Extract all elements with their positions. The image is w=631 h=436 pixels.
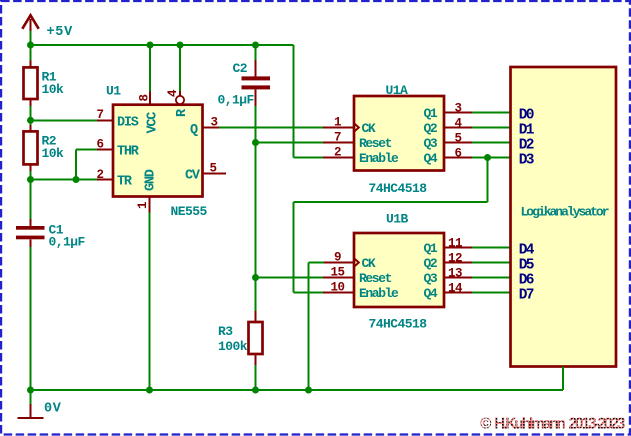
pin 13 Q3 B: [424, 266, 473, 286]
svg-text:Q4: Q4: [424, 286, 438, 301]
svg-text:2: 2: [96, 168, 103, 182]
svg-text:Logikanalysator: Logikanalysator: [521, 205, 609, 220]
pin 4 Q2 A: [424, 116, 473, 136]
wire TR row: [31, 171, 98, 180]
pin 3 Q: [190, 115, 219, 138]
wire Q3B to analyzer: [472, 277, 511, 279]
wire Q4A to Enable B: [294, 158, 488, 293]
wire top +5V rail: [31, 31, 325, 158]
svg-text:0V: 0V: [44, 402, 62, 417]
svg-text:Q2: Q2: [424, 121, 438, 136]
power +5V symbol: [22, 15, 38, 31]
svg-text:13: 13: [448, 266, 462, 280]
svg-text:Q4: Q4: [424, 151, 438, 166]
svg-text:U1A: U1A: [386, 83, 409, 98]
pin 10 Enable B: [323, 280, 399, 301]
svg-text:Reset: Reset: [359, 271, 392, 286]
wire CK B to bottom rail: [309, 263, 325, 391]
svg-text:D5: D5: [519, 258, 534, 274]
pin 5 CV: [185, 162, 226, 184]
pin 7 DIS: [96, 108, 138, 130]
junction Q4A / D3: [484, 154, 491, 161]
junction THR-TR link: [73, 176, 80, 183]
pin 8 VCC: [138, 45, 161, 134]
pin 11 Q1 B: [424, 236, 473, 256]
wire to Reset B: [256, 277, 325, 279]
svg-text:GND: GND: [144, 169, 159, 191]
svg-text:100k: 100k: [218, 339, 248, 354]
svg-text:Enable: Enable: [359, 151, 399, 166]
svg-text:U1: U1: [106, 84, 121, 99]
svg-text:6: 6: [96, 138, 103, 152]
svg-text:CK: CK: [362, 256, 376, 271]
junction top rail x=150: [147, 42, 154, 49]
wire Q to CK A: [219, 127, 324, 129]
junction reset B: [252, 274, 259, 281]
pin 6 Q4 A: [424, 146, 473, 166]
svg-text:Q1: Q1: [424, 106, 438, 121]
svg-text:5: 5: [209, 162, 216, 176]
svg-text:D0: D0: [519, 108, 534, 124]
svg-text:74HC4518: 74HC4518: [369, 181, 428, 196]
junction top rail x=255.5: [252, 42, 259, 49]
logic analyzer sheet: [511, 67, 617, 367]
svg-text:Q3: Q3: [424, 271, 438, 286]
svg-text:0,1µF: 0,1µF: [49, 234, 86, 249]
wire bottom 0V rail: [31, 389, 564, 391]
svg-text:14: 14: [448, 281, 463, 295]
svg-text:0,1µF: 0,1µF: [218, 93, 255, 108]
wire Q2B to analyzer: [472, 262, 511, 264]
resistor R2: [24, 125, 65, 171]
wire Q1A to analyzer: [472, 112, 511, 114]
capacitor C1: [16, 219, 86, 249]
svg-text:C2: C2: [233, 61, 248, 76]
svg-text:D4: D4: [519, 243, 535, 259]
svg-text:5: 5: [454, 131, 461, 145]
svg-text:1: 1: [136, 202, 150, 209]
wire THR link: [76, 150, 97, 180]
wire C1 to bottom rail: [30, 247, 32, 390]
wire analyzer to 0V rail: [562, 367, 564, 391]
junction top rail x=30.5: [27, 42, 34, 49]
svg-text:10k: 10k: [42, 82, 65, 97]
svg-text:1: 1: [334, 115, 341, 129]
pin 6 THR: [96, 138, 139, 160]
junction reset A: [252, 139, 259, 146]
wire Q1B to analyzer: [472, 247, 511, 249]
svg-text:Reset: Reset: [359, 136, 392, 151]
svg-text:3: 3: [210, 115, 217, 129]
svg-text:R3: R3: [218, 324, 233, 339]
junction TR left: [27, 176, 34, 183]
svg-text:CK: CK: [362, 121, 376, 136]
junction top rail x=180: [177, 42, 184, 49]
svg-text:+5V: +5V: [47, 25, 74, 40]
svg-text:11: 11: [448, 236, 462, 250]
timer U1 box: [113, 105, 203, 197]
wire C2 to reset nodes and R3: [255, 106, 257, 311]
junction bottom rail left: [27, 387, 34, 394]
svg-text:TR: TR: [117, 175, 133, 190]
clock triangle U1A: [354, 123, 359, 132]
svg-text:7: 7: [96, 108, 103, 122]
pin 14 Q4 B: [424, 281, 473, 301]
clock triangle U1B: [354, 258, 359, 267]
svg-text:Q2: Q2: [424, 256, 438, 271]
svg-text:D7: D7: [519, 288, 534, 304]
pin 1 CK A: [323, 115, 376, 136]
svg-text:Q1: Q1: [424, 241, 438, 256]
svg-text:15: 15: [330, 265, 344, 279]
svg-text:NE555: NE555: [171, 204, 208, 219]
wire GND to bottom rail: [149, 213, 151, 391]
svg-text:2: 2: [334, 145, 341, 159]
svg-text:6: 6: [454, 146, 461, 160]
svg-text:7: 7: [334, 130, 341, 144]
pin 7 Reset A: [323, 130, 392, 151]
svg-text:© H.Kuhlmann 2013-2023: © H.Kuhlmann 2013-2023: [480, 416, 626, 433]
pin 12 Q2 B: [424, 251, 473, 271]
pin 9 CK B: [323, 250, 376, 271]
svg-text:VCC: VCC: [146, 112, 161, 134]
wire R3 to bottom rail: [255, 365, 257, 390]
svg-text:10: 10: [330, 280, 344, 294]
svg-text:CV: CV: [185, 169, 201, 184]
wire Q2A to analyzer: [472, 127, 511, 129]
svg-text:4: 4: [454, 116, 462, 130]
svg-text:D2: D2: [519, 138, 534, 154]
svg-text:3: 3: [454, 101, 461, 115]
wire Q4B to analyzer: [472, 292, 511, 294]
wire Q4A to analyzer: [472, 157, 511, 159]
pin 4 R with bubble: [166, 45, 190, 117]
pin 1 GND: [136, 169, 159, 212]
wire Q3A to analyzer: [472, 142, 511, 144]
junction bottom rail gnd column: [146, 387, 153, 394]
wire DIS row: [31, 119, 98, 121]
pin 2 Enable A: [323, 145, 399, 166]
capacitor C2: [218, 45, 271, 108]
svg-text:Enable: Enable: [359, 286, 399, 301]
svg-text:THR: THR: [117, 145, 140, 160]
resistor R1: [24, 61, 65, 107]
svg-text:9: 9: [334, 250, 341, 264]
svg-text:12: 12: [448, 251, 462, 265]
counter U1A box: [354, 96, 444, 171]
counter U1B box: [354, 233, 444, 307]
svg-text:D6: D6: [519, 273, 534, 289]
wire to Reset A: [256, 142, 325, 144]
svg-text:Q3: Q3: [424, 136, 438, 151]
junction DIS node: [27, 117, 34, 124]
svg-text:D3: D3: [519, 153, 534, 169]
svg-text:U1B: U1B: [386, 212, 409, 227]
pin 2 TR: [96, 168, 132, 190]
svg-text:4: 4: [166, 89, 180, 97]
pin 15 Reset B: [323, 265, 392, 286]
junction bottom rail R3 column: [252, 387, 259, 394]
svg-text:DIS: DIS: [117, 115, 139, 130]
svg-text:8: 8: [138, 94, 152, 101]
wire R1 to DIS node: [30, 106, 32, 125]
svg-text:D1: D1: [519, 123, 535, 139]
svg-text:10k: 10k: [42, 146, 65, 161]
svg-text:Q: Q: [190, 123, 198, 138]
svg-text:74HC4518: 74HC4518: [369, 317, 428, 332]
ground 0V symbol: [18, 390, 44, 418]
pin 3 Q1 A: [424, 101, 473, 121]
junction bottom rail CKB column: [305, 387, 312, 394]
resistor R3: [218, 311, 263, 365]
pin 5 Q3 A: [424, 131, 473, 151]
wire left column to C1: [30, 180, 32, 220]
